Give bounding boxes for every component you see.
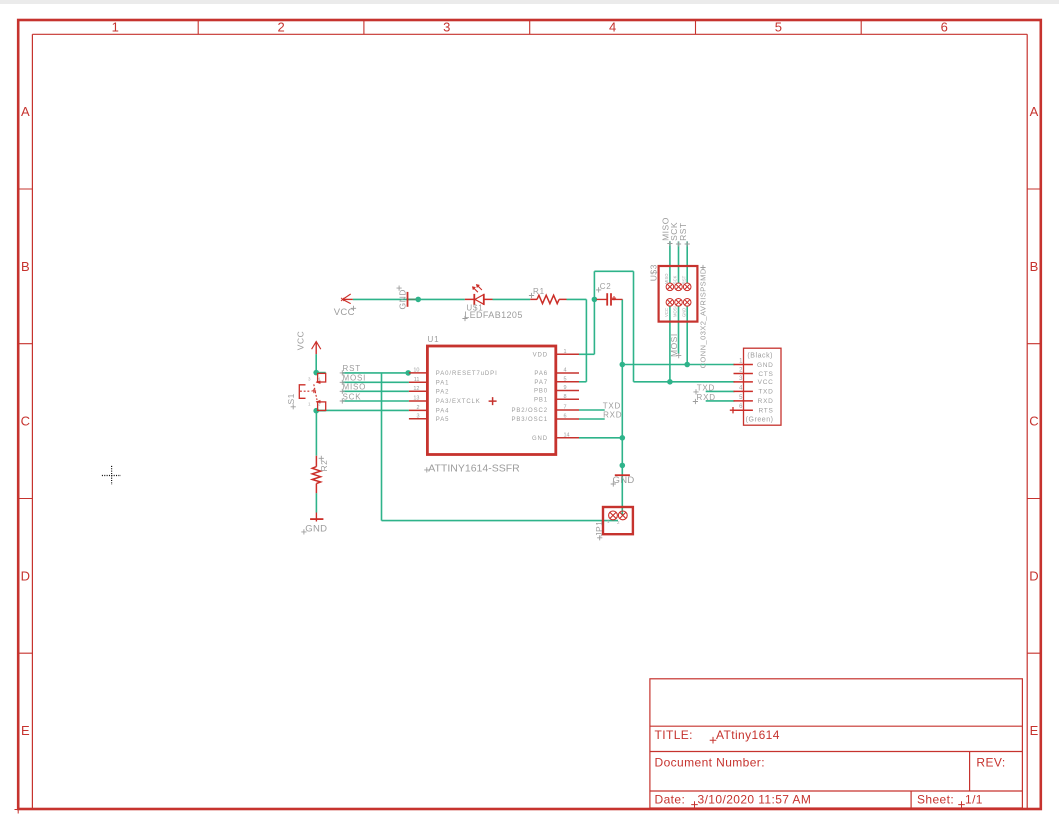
svg-text:SCK: SCK bbox=[343, 392, 362, 401]
wire RST to pin 10 bbox=[342, 372, 409, 374]
wire U$3 VCC pad down bbox=[669, 306, 671, 382]
junction pin14 wire bbox=[620, 435, 626, 441]
svg-text:JP1: JP1 bbox=[594, 521, 604, 537]
frame row dividers right bbox=[1027, 189, 1041, 653]
LED U$1 bbox=[465, 284, 493, 305]
svg-text:Date:: Date: bbox=[655, 793, 686, 807]
svg-text:U1: U1 bbox=[428, 335, 440, 344]
wire RXD to serial pin 5 bbox=[706, 400, 735, 402]
svg-text:MOSI: MOSI bbox=[673, 306, 678, 317]
junction RST at pin 10 bbox=[405, 370, 411, 376]
svg-text:TXD: TXD bbox=[603, 401, 621, 410]
S1 lever dashed bbox=[314, 384, 317, 400]
C2 polarity plus bbox=[612, 296, 616, 300]
frame row letters bbox=[21, 104, 1039, 738]
ground symbol on top wire bbox=[407, 292, 409, 307]
svg-text:VDD: VDD bbox=[533, 353, 548, 359]
U1 right pin stubs bbox=[556, 353, 579, 355]
svg-text:1: 1 bbox=[564, 349, 567, 355]
svg-text:U$3: U$3 bbox=[649, 264, 659, 281]
cross at MISO wire top bbox=[667, 241, 672, 246]
ground symbol bottom left bbox=[310, 513, 323, 522]
cross at R2 label bbox=[319, 456, 324, 461]
U1 pin names right bbox=[511, 353, 548, 443]
svg-text:1: 1 bbox=[739, 359, 743, 365]
junction C2 left bbox=[592, 297, 598, 303]
svg-text:1/1: 1/1 bbox=[965, 793, 983, 807]
cursor crosshair bbox=[102, 466, 121, 485]
wire S1 to R2 bbox=[315, 411, 317, 456]
svg-text:B: B bbox=[1030, 259, 1039, 274]
svg-text:E: E bbox=[21, 723, 30, 738]
svg-text:E: E bbox=[1030, 723, 1039, 738]
S1 actuator bracket bbox=[299, 385, 305, 399]
svg-text:TXD: TXD bbox=[758, 389, 773, 396]
cross at MISO label start bbox=[340, 389, 345, 394]
svg-text:A: A bbox=[1030, 104, 1039, 119]
cross at GND mid label bbox=[611, 481, 616, 486]
cross at RST wire top bbox=[685, 241, 690, 246]
junction S1 top bbox=[313, 370, 319, 376]
S1 tiny pin numbers bbox=[308, 377, 321, 407]
svg-text:PA3/EXTCLK: PA3/EXTCLK bbox=[436, 399, 481, 405]
svg-text:GND: GND bbox=[305, 523, 327, 534]
wire pin 14 to GND net bbox=[579, 437, 622, 439]
title block text origin crosses bbox=[691, 737, 965, 808]
svg-text:1: 1 bbox=[112, 20, 119, 35]
frame row dividers left bbox=[18, 189, 32, 653]
wire VDD pin 1 bbox=[579, 353, 594, 355]
wire VDD vertical to C2 bbox=[593, 271, 595, 354]
svg-text:14: 14 bbox=[564, 432, 570, 438]
svg-text:VCC: VCC bbox=[664, 308, 669, 317]
cross at ATTINY label bbox=[424, 467, 429, 472]
svg-text:6: 6 bbox=[564, 414, 567, 420]
wire TXD to serial pin 4 bbox=[706, 390, 735, 392]
svg-text:1: 1 bbox=[308, 402, 311, 407]
cross at MOSI label start bbox=[340, 380, 345, 385]
wire into pin 5 bbox=[579, 381, 586, 383]
wire SCK up from U$3 bbox=[678, 241, 680, 283]
svg-text:C: C bbox=[1029, 414, 1038, 429]
junction S1 bottom bbox=[313, 408, 319, 414]
svg-text:PB3/OSC1: PB3/OSC1 bbox=[511, 417, 548, 423]
svg-text:S1: S1 bbox=[286, 393, 296, 404]
U1 origin cross bbox=[489, 397, 497, 405]
svg-text:PA1: PA1 bbox=[436, 381, 450, 387]
wire overlap dark segment at GND symbol bbox=[408, 298, 419, 300]
svg-text:GND: GND bbox=[681, 308, 686, 317]
svg-text:MOSI: MOSI bbox=[343, 374, 367, 383]
svg-text:9: 9 bbox=[564, 385, 567, 391]
cross at GND top label bbox=[397, 286, 402, 291]
svg-text:LEDFAB1205: LEDFAB1205 bbox=[464, 310, 523, 320]
cross at R1 label bbox=[529, 293, 534, 298]
power VCC arrow above S1 bbox=[312, 342, 321, 355]
svg-text:R2: R2 bbox=[319, 460, 329, 472]
svg-text:PA0/RESET7uDPI: PA0/RESET7uDPI bbox=[436, 371, 498, 377]
svg-text:6: 6 bbox=[739, 404, 743, 410]
svg-text:GND: GND bbox=[613, 475, 635, 486]
wire SCK to pin 13 bbox=[342, 400, 409, 402]
svg-text:PA7: PA7 bbox=[534, 380, 548, 386]
wire MISO to pin 12 bbox=[342, 390, 409, 392]
svg-text:(Black): (Black) bbox=[747, 352, 773, 359]
svg-text:VCC: VCC bbox=[758, 379, 774, 386]
svg-text:2: 2 bbox=[617, 520, 620, 525]
svg-text:4: 4 bbox=[739, 385, 743, 391]
wire top loop horizontal bbox=[594, 270, 633, 272]
svg-text:5: 5 bbox=[564, 376, 567, 382]
LED arrows bbox=[473, 285, 482, 292]
resistor R1 bbox=[530, 295, 566, 303]
svg-text:10: 10 bbox=[413, 367, 419, 373]
serial connector pin stubs bbox=[734, 365, 753, 411]
svg-text:B: B bbox=[21, 259, 30, 274]
svg-text:D: D bbox=[21, 568, 30, 583]
wire MOSI to pin 11 bbox=[342, 381, 409, 383]
cross at RXD serial label bbox=[693, 399, 698, 404]
U$3 pads top row MISO SCK RST bbox=[666, 283, 691, 306]
cross at SCK wire top bbox=[676, 241, 681, 246]
svg-text:R1: R1 bbox=[533, 287, 545, 296]
svg-text:TXD: TXD bbox=[697, 384, 715, 393]
svg-text:RXD: RXD bbox=[603, 411, 622, 420]
wire U$3 GND pad down bbox=[686, 306, 688, 365]
cross at LED label bbox=[462, 316, 467, 321]
junction U$3 VCC pad line bbox=[667, 379, 673, 385]
svg-text:11: 11 bbox=[414, 377, 420, 383]
wire S1 bottom stub bbox=[316, 410, 326, 412]
wire LED to R1 bbox=[493, 298, 531, 300]
cross at GND bottom label bbox=[301, 529, 306, 534]
frame column numbers bbox=[112, 20, 948, 35]
wire R1 right bbox=[567, 298, 587, 300]
svg-text:3: 3 bbox=[443, 20, 450, 35]
svg-text:2: 2 bbox=[416, 405, 419, 411]
gray origin crosses bbox=[291, 241, 706, 541]
ground symbol mid right bbox=[615, 474, 630, 476]
svg-text:RXD: RXD bbox=[758, 398, 774, 405]
cross at CONN label bbox=[700, 265, 705, 270]
cross at RST label start bbox=[340, 370, 345, 375]
wire MISO up from U$3 bbox=[669, 241, 671, 283]
wire RST vertical to JP1 bbox=[381, 373, 383, 521]
svg-text:Document Number:: Document Number: bbox=[655, 756, 765, 770]
svg-text:ATtiny1614: ATtiny1614 bbox=[716, 728, 780, 742]
wire R1 down to PA7 bbox=[585, 299, 587, 381]
U1 pin names left bbox=[436, 371, 498, 423]
wire GND to serial pin 1 bbox=[622, 364, 734, 366]
wire S1 to pin 2 bbox=[316, 409, 409, 411]
serial RTS plus mark bbox=[730, 407, 736, 413]
svg-text:12: 12 bbox=[413, 386, 419, 392]
serial connector box bbox=[744, 348, 782, 425]
svg-text:PA6: PA6 bbox=[534, 371, 548, 377]
svg-text:MOSI: MOSI bbox=[669, 333, 679, 357]
junction GND line below C2 bbox=[620, 362, 626, 368]
connector U$3 box bbox=[659, 266, 698, 322]
svg-text:5: 5 bbox=[775, 20, 782, 35]
switch S1 bbox=[299, 373, 325, 410]
svg-text:7: 7 bbox=[564, 405, 567, 411]
svg-text:13: 13 bbox=[413, 396, 419, 402]
svg-text:1: 1 bbox=[607, 519, 610, 524]
svg-text:REV:: REV: bbox=[976, 756, 1005, 770]
svg-text:PA2: PA2 bbox=[436, 390, 450, 396]
svg-text:MISO: MISO bbox=[343, 383, 367, 392]
junction GND symbol pin bbox=[620, 463, 626, 469]
junction dots bbox=[313, 297, 690, 469]
svg-text:PB2/OSC2: PB2/OSC2 bbox=[511, 408, 548, 414]
wire net VCC top from arrow to LED bbox=[353, 298, 465, 300]
svg-text:C2: C2 bbox=[600, 282, 612, 291]
svg-text:CTS: CTS bbox=[758, 371, 773, 378]
U1 pin numbers left bbox=[413, 367, 419, 419]
capacitor C2 bbox=[597, 293, 623, 305]
svg-text:3: 3 bbox=[308, 377, 311, 382]
serial pin numbers bbox=[739, 359, 743, 411]
wire C2 right down to JP1 bbox=[621, 299, 623, 515]
U$3 tiny pad labels bbox=[664, 273, 686, 317]
cross at SCK label start bbox=[340, 398, 345, 403]
svg-text:RST: RST bbox=[678, 222, 688, 241]
svg-text:GND: GND bbox=[532, 436, 548, 442]
cross at C2 label bbox=[596, 287, 601, 292]
svg-text:GND: GND bbox=[398, 289, 408, 309]
wire RXD from pin 6 bbox=[579, 418, 605, 420]
serial inside pin labels bbox=[757, 362, 774, 415]
svg-text:Sheet:: Sheet: bbox=[917, 793, 954, 807]
svg-text:6: 6 bbox=[941, 20, 948, 35]
title block box bbox=[650, 679, 1023, 808]
svg-text:PA5: PA5 bbox=[436, 417, 450, 423]
cross at TXD serial label bbox=[693, 389, 698, 394]
svg-text:8: 8 bbox=[564, 394, 567, 400]
svg-text:RTS: RTS bbox=[759, 408, 774, 415]
JP1 pad 1 bbox=[609, 511, 618, 520]
jumper JP1 box bbox=[603, 507, 633, 534]
title block text bbox=[655, 728, 1006, 806]
wire R2 to GND bbox=[315, 493, 317, 512]
resistor R2 bbox=[312, 456, 320, 493]
svg-text:D: D bbox=[1029, 568, 1038, 583]
svg-text:2: 2 bbox=[739, 368, 743, 374]
wire S1 top stub bbox=[316, 372, 326, 374]
rotated labels bbox=[286, 217, 688, 537]
svg-text:PB1: PB1 bbox=[534, 398, 548, 404]
JP1 tiny pin numbers bbox=[607, 519, 620, 525]
wire TXD from pin 7 bbox=[579, 409, 605, 411]
svg-text:5: 5 bbox=[739, 395, 743, 401]
svg-text:TITLE:: TITLE: bbox=[655, 728, 693, 742]
svg-text:A: A bbox=[21, 104, 30, 119]
cross at VCC text bbox=[351, 306, 356, 311]
U$3 pads bottom row VCC MOSI GND bbox=[666, 299, 674, 307]
svg-text:RXD: RXD bbox=[697, 393, 716, 402]
svg-text:PB0: PB0 bbox=[534, 389, 548, 395]
JP1 pad 2 bbox=[618, 511, 627, 520]
frame column dividers bbox=[198, 20, 861, 34]
wire bottom to JP1 pad bbox=[382, 520, 619, 522]
cross at S1 label bbox=[291, 404, 296, 409]
svg-text:PA4: PA4 bbox=[436, 409, 450, 415]
wire loop vertical down bbox=[633, 271, 635, 382]
svg-text:3: 3 bbox=[739, 376, 743, 382]
cross at MOSI wire bottom bbox=[676, 353, 681, 358]
svg-text:4: 4 bbox=[564, 368, 567, 374]
svg-text:(Green): (Green) bbox=[746, 416, 774, 423]
svg-text:MISO: MISO bbox=[664, 273, 669, 284]
wire RST up from U$3 bbox=[686, 241, 688, 283]
svg-text:ATTINY1614-SSFR: ATTINY1614-SSFR bbox=[428, 462, 520, 474]
svg-text:RST: RST bbox=[343, 364, 361, 373]
svg-text:VCC: VCC bbox=[296, 331, 306, 350]
svg-text:CONN_03X2_AVRISPSMD: CONN_03X2_AVRISPSMD bbox=[699, 268, 708, 368]
svg-text:GND: GND bbox=[757, 362, 774, 369]
op-amp U1 ATTINY1614 box bbox=[427, 346, 555, 455]
junction U$3 GND pad line bbox=[684, 362, 690, 368]
svg-text:3: 3 bbox=[416, 413, 419, 419]
svg-text:RST: RST bbox=[681, 275, 686, 284]
wire VCC arrow to S1 bbox=[315, 354, 317, 373]
wire U$3 MOSI pad down bbox=[678, 306, 680, 354]
junction top wire at GND pin bbox=[415, 297, 421, 303]
U1 left pin stubs bbox=[409, 354, 579, 438]
svg-text:2: 2 bbox=[277, 20, 284, 35]
svg-text:3/10/2020 11:57 AM: 3/10/2020 11:57 AM bbox=[698, 793, 812, 807]
wire VCC to serial pin 3 bbox=[634, 381, 735, 383]
svg-text:4: 4 bbox=[609, 20, 616, 35]
U1 pin numbers right bbox=[564, 349, 570, 439]
power VCC arrow left bbox=[341, 294, 353, 304]
frame corner tick bbox=[15, 806, 23, 814]
svg-text:C: C bbox=[21, 414, 30, 429]
S1 cross mark bbox=[312, 389, 316, 393]
svg-text:SCK: SCK bbox=[673, 275, 678, 284]
cross at JP1 label bbox=[597, 535, 602, 540]
